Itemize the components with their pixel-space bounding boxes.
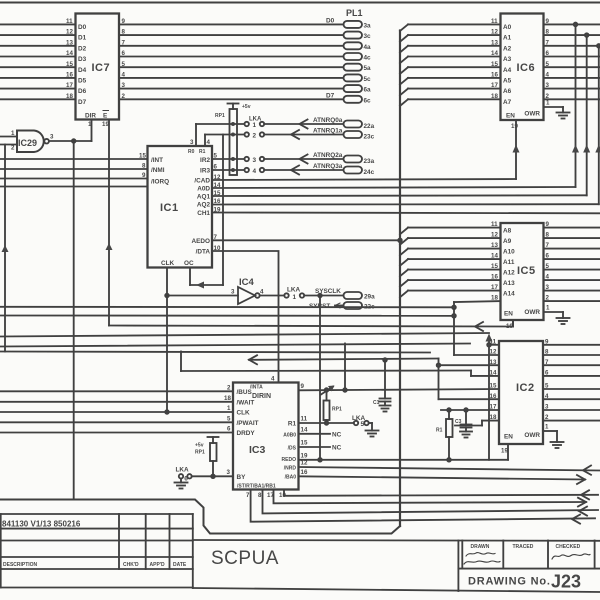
- svg-text:9: 9: [546, 18, 550, 25]
- svg-text:+5v: +5v: [195, 443, 204, 449]
- svg-text:C1: C1: [373, 400, 380, 406]
- svg-text:15: 15: [491, 61, 498, 68]
- svg-text:16: 16: [491, 274, 498, 281]
- buffer IC2: [499, 341, 543, 444]
- wire IC5 pin 1 to ground: [544, 305, 564, 319]
- svg-text:4: 4: [546, 72, 550, 79]
- svg-text:IC29: IC29: [18, 138, 37, 148]
- svg-text:OWR: OWR: [524, 309, 540, 316]
- svg-text:16: 16: [491, 72, 498, 79]
- ground IC2: [551, 442, 564, 448]
- svg-text:RP1: RP1: [215, 113, 225, 119]
- wire IC3 NC stubs: [299, 427, 342, 452]
- svg-text:19: 19: [511, 123, 518, 130]
- wire IC6 input address lines with bus entries: [400, 18, 501, 106]
- svg-text:9: 9: [142, 172, 146, 179]
- wire LKA link 2 ATNRQ1a: [205, 128, 375, 141]
- wire IC2 left pin numbers: [490, 338, 497, 421]
- capacitor C3: [455, 408, 472, 437]
- svg-text:NC: NC: [332, 432, 342, 439]
- svg-text:EN: EN: [504, 311, 513, 318]
- svg-text:3: 3: [546, 82, 550, 89]
- svg-text:CLK: CLK: [161, 260, 175, 267]
- wire IC7 DIR pin 1: [88, 120, 92, 142]
- wire IC29 output to IC7 DIR: [49, 139, 92, 143]
- wire IC3 bottom pins to right bus: [246, 490, 598, 524]
- svg-text:R1: R1: [436, 428, 443, 434]
- buffer IC6: [501, 14, 544, 121]
- svg-text:8: 8: [546, 29, 550, 36]
- svg-text:13: 13: [491, 39, 498, 46]
- wire bus line y346: [0, 344, 470, 347]
- resistor R1 pullup: [436, 408, 453, 461]
- svg-text:DRAWN: DRAWN: [471, 544, 490, 550]
- svg-text:A10: A10: [503, 249, 515, 256]
- svg-text:R1: R1: [199, 149, 206, 155]
- svg-text:IC7: IC7: [92, 62, 111, 74]
- svg-text:1: 1: [88, 121, 92, 128]
- svg-text:A13: A13: [503, 280, 515, 287]
- wire IC5 outputs: [544, 221, 600, 302]
- wire IC3 BY pin and LKA link 6: [176, 467, 234, 483]
- svg-text:19: 19: [301, 453, 308, 460]
- wire IC5 input address lines with bus entries: [400, 221, 501, 302]
- svg-text:6c: 6c: [364, 97, 372, 104]
- svg-text:24c: 24c: [364, 169, 375, 176]
- svg-text:A6: A6: [503, 88, 512, 95]
- resistor pack RP1: [215, 109, 237, 175]
- svg-text:8: 8: [122, 29, 126, 36]
- ground LKA5: [366, 431, 379, 437]
- svg-text:1: 1: [293, 294, 297, 301]
- svg-text:RP1: RP1: [195, 450, 205, 456]
- svg-text:4c: 4c: [364, 55, 372, 62]
- svg-text:A5: A5: [503, 78, 512, 85]
- ground IC6: [557, 113, 570, 119]
- svg-text:ATNRQ3a: ATNRQ3a: [313, 163, 343, 170]
- svg-text:R1: R1: [288, 421, 297, 428]
- svg-text:OC: OC: [184, 260, 194, 267]
- wire IC6 outputs: [544, 18, 600, 100]
- svg-text:LKA: LKA: [287, 287, 301, 294]
- svg-text:/DTA: /DTA: [196, 249, 211, 256]
- svg-text:IC3: IC3: [249, 444, 266, 456]
- svg-text:18: 18: [491, 93, 498, 100]
- svg-text:7: 7: [246, 492, 250, 499]
- power +5v for RP1: [228, 104, 251, 111]
- svg-text:TRACED: TRACED: [513, 544, 534, 550]
- wire IC2 pin 1 to ground: [543, 424, 557, 443]
- svg-text:4: 4: [207, 139, 211, 146]
- svg-text:A9: A9: [503, 238, 512, 245]
- svg-text:12: 12: [301, 460, 308, 467]
- svg-text:IC5: IC5: [517, 265, 536, 277]
- wire IC1 top pins IR0 IR1: [190, 124, 211, 146]
- svg-text:2: 2: [545, 414, 549, 421]
- top border: [0, 2, 600, 4]
- wire IC1 OC pin loop with arrow: [190, 135, 223, 289]
- svg-text:15: 15: [491, 263, 498, 270]
- svg-text:PL1: PL1: [346, 8, 363, 18]
- wire REDO line to IC2 EN: [299, 453, 509, 460]
- svg-text:5: 5: [545, 383, 549, 390]
- buffer IC7: [76, 14, 120, 120]
- svg-text:AQ1: AQ1: [197, 194, 211, 201]
- wire LKA link 5: [299, 415, 373, 431]
- wire LKA link SYSCLK: [260, 287, 344, 302]
- revision table: [0, 514, 193, 588]
- svg-text:8: 8: [258, 492, 262, 499]
- svg-text:2: 2: [122, 93, 126, 100]
- wire IC3 left inputs: [0, 385, 233, 433]
- svg-text:14: 14: [301, 427, 308, 434]
- svg-text:18: 18: [66, 93, 73, 100]
- resistor pack RP1 pullup at IC3: [324, 388, 342, 423]
- svg-text:1: 1: [546, 100, 550, 107]
- svg-text:2: 2: [11, 145, 15, 152]
- svg-text:17: 17: [491, 284, 498, 291]
- svg-text:6: 6: [546, 50, 550, 57]
- svg-text:29a: 29a: [364, 294, 375, 301]
- svg-text:/PWAIT: /PWAIT: [237, 420, 259, 427]
- svg-text:9: 9: [122, 18, 126, 25]
- wire main vertical bus x400: [399, 31, 401, 527]
- wire IC1 left inputs: [0, 153, 148, 187]
- svg-text:3: 3: [545, 404, 549, 411]
- wire lower border bus route: [0, 500, 400, 534]
- svg-text:5: 5: [546, 61, 550, 68]
- svg-text:LKA: LKA: [176, 467, 190, 474]
- svg-text:18: 18: [224, 395, 231, 402]
- svg-text:ATNRQ2a: ATNRQ2a: [313, 152, 343, 159]
- ground IC5: [557, 318, 570, 324]
- svg-text:D7: D7: [78, 99, 87, 106]
- svg-text:/WAIT: /WAIT: [237, 400, 255, 407]
- wire LKA link 1 ATNRQ0a: [196, 117, 375, 130]
- svg-text:AQ2: AQ2: [197, 202, 211, 209]
- wire bus line y307 to IC5 A15 and IC2 pin12: [0, 301, 501, 355]
- svg-text:A8: A8: [503, 228, 512, 235]
- wire IC1 CLK pin down: [165, 268, 169, 414]
- title block drawn traced checked: [458, 541, 600, 592]
- wire IC6 EN pin 19 down to /CAD: [511, 120, 520, 179]
- svg-text:2: 2: [546, 295, 550, 302]
- svg-text:DESCRIPTION: DESCRIPTION: [3, 562, 38, 568]
- svg-text:A14: A14: [503, 291, 515, 298]
- svg-text:22a: 22a: [364, 123, 375, 130]
- svg-text:IC6: IC6: [517, 62, 536, 74]
- wire AEDO line to edge: [212, 239, 400, 241]
- wire /DTA to IC3 pin 4: [212, 251, 279, 383]
- svg-text:6a: 6a: [364, 87, 372, 94]
- svg-text:12: 12: [491, 29, 498, 36]
- svg-text:7: 7: [546, 242, 550, 249]
- title drawing number J23: [468, 572, 581, 592]
- svg-text:IC2: IC2: [516, 382, 535, 394]
- svg-text:6: 6: [227, 426, 231, 433]
- svg-text:A1: A1: [503, 35, 512, 42]
- svg-text:8: 8: [142, 163, 146, 170]
- wire bus line y315: [0, 314, 456, 318]
- svg-text:9: 9: [546, 221, 550, 228]
- svg-text:SYRST: SYRST: [309, 303, 330, 310]
- svg-text:DIRIN: DIRIN: [252, 393, 271, 400]
- svg-text:IR2: IR2: [200, 157, 210, 164]
- svg-text:14: 14: [491, 253, 498, 260]
- svg-text:DRAWING No.: DRAWING No.: [468, 576, 551, 588]
- svg-text:BY: BY: [237, 474, 247, 481]
- svg-text:3: 3: [50, 134, 54, 141]
- svg-text:A0: A0: [503, 24, 512, 31]
- svg-text:D6: D6: [78, 88, 87, 95]
- svg-text:15: 15: [139, 153, 146, 160]
- ground LKA6: [175, 483, 188, 489]
- wire IC2 EN pin 19: [501, 444, 508, 460]
- svg-text:16: 16: [66, 72, 73, 79]
- wire IC3 DIRIN pin 9 line to IC2 pin15: [299, 344, 500, 395]
- wire IC1 right pin numbers: [214, 153, 221, 253]
- svg-text:/NMI: /NMI: [151, 167, 165, 174]
- svg-text:/DS: /DS: [288, 446, 297, 452]
- connector PL1: [344, 8, 372, 104]
- nand gate IC29: [11, 130, 54, 152]
- svg-text:/CAD: /CAD: [194, 178, 210, 185]
- svg-text:23c: 23c: [364, 134, 375, 141]
- wire IC2 outputs: [543, 338, 600, 421]
- svg-text:14: 14: [66, 50, 73, 57]
- svg-text:7: 7: [545, 359, 549, 366]
- wire IC29 inputs: [0, 137, 17, 145]
- svg-text:5a: 5a: [364, 65, 372, 72]
- wire LKA link 4 ATNRQ3a: [212, 163, 375, 176]
- capacitor C1 on line y359: [373, 358, 391, 411]
- svg-text:17: 17: [491, 82, 498, 89]
- svg-text:OWR: OWR: [524, 111, 540, 118]
- svg-text:2: 2: [227, 385, 231, 392]
- svg-text:D2: D2: [78, 45, 87, 52]
- svg-text:ATNRQ1a: ATNRQ1a: [313, 128, 343, 135]
- wire IC4 input from CLK net: [167, 295, 238, 297]
- resistor RP1 at BY with +5v: [195, 437, 219, 476]
- svg-text:CLK: CLK: [237, 410, 251, 417]
- svg-text:A3: A3: [503, 56, 512, 63]
- svg-text:D5: D5: [78, 78, 87, 85]
- wire vertical DIR net down to lower border: [73, 141, 75, 500]
- wire IC6 pin7 feedback vertical: [595, 44, 600, 204]
- svg-text:19: 19: [501, 448, 508, 455]
- svg-text:841130 V1/13 850216: 841130 V1/13 850216: [2, 520, 81, 529]
- svg-text:3c: 3c: [364, 33, 372, 40]
- svg-text:E: E: [103, 113, 108, 120]
- wire /CAD line to IC6 EN: [212, 179, 516, 180]
- wire IC6 pin 1 to ground: [544, 100, 564, 113]
- svg-text:NC: NC: [332, 445, 342, 452]
- svg-text:RP1: RP1: [332, 407, 342, 413]
- svg-text:3a: 3a: [364, 22, 372, 29]
- svg-text:DATE: DATE: [173, 562, 187, 568]
- svg-text:19: 19: [102, 121, 109, 128]
- svg-text:22c: 22c: [364, 304, 375, 311]
- svg-text:3: 3: [231, 289, 235, 296]
- svg-text:4: 4: [253, 168, 257, 175]
- svg-text:D0: D0: [78, 24, 87, 31]
- svg-text:A4: A4: [503, 67, 512, 74]
- cpu IC1: [148, 146, 213, 268]
- pad SYSRST 22c: [309, 302, 375, 311]
- svg-text:C3: C3: [455, 419, 462, 425]
- svg-text:J23: J23: [551, 572, 581, 592]
- wire bus line y325 from IC7 /E to IC5 EN: [109, 320, 513, 331]
- svg-text:R0: R0: [188, 149, 195, 155]
- svg-text:11: 11: [66, 18, 73, 25]
- wire IC7 D0-D7 input bus: [0, 18, 87, 106]
- svg-text:8: 8: [545, 349, 549, 356]
- svg-text:/NRD: /NRD: [284, 466, 297, 472]
- wire SYSCLK vertical x320: [318, 294, 322, 462]
- svg-text:5c: 5c: [364, 76, 372, 83]
- svg-text:3: 3: [190, 139, 194, 146]
- svg-text:/BA0: /BA0: [285, 475, 297, 481]
- svg-text:4: 4: [271, 376, 275, 383]
- svg-text:1: 1: [546, 305, 550, 312]
- svg-text:12: 12: [491, 232, 498, 239]
- svg-text:+5v: +5v: [242, 104, 251, 110]
- svg-text:CH1: CH1: [197, 210, 210, 217]
- controller IC3: [233, 383, 299, 490]
- svg-text:D7: D7: [326, 93, 335, 100]
- svg-text:3: 3: [227, 469, 231, 476]
- wire IC3 pin12 /NRD line right with arrow: [299, 460, 600, 475]
- svg-text:6: 6: [122, 50, 126, 57]
- svg-text:IR3: IR3: [200, 168, 210, 175]
- svg-text:IC1: IC1: [160, 202, 179, 214]
- wire AQ1 line: [212, 194, 587, 197]
- svg-text:DIR: DIR: [85, 113, 96, 120]
- svg-text:11: 11: [491, 18, 498, 25]
- wire IC2 pin18 feed jog: [455, 421, 499, 426]
- svg-text:EN: EN: [506, 113, 515, 120]
- svg-text:9: 9: [301, 383, 305, 390]
- wire IC6 pin8 feedback vertical: [583, 33, 590, 195]
- wire bus line y336 to arrow at IC2 pin11: [0, 333, 489, 337]
- buffer IC5: [501, 223, 544, 320]
- wire vertical from IC29 input down to bus: [2, 145, 9, 352]
- svg-text:/INT: /INT: [151, 157, 163, 164]
- svg-text:D0: D0: [326, 18, 335, 25]
- svg-text:SCPUA: SCPUA: [211, 548, 279, 569]
- wire IC7 /E pin 19 down to bus line: [102, 120, 113, 326]
- svg-text:4: 4: [546, 274, 550, 281]
- wire A0D line: [212, 187, 576, 188]
- svg-text:11: 11: [491, 221, 498, 228]
- svg-text:6: 6: [546, 253, 550, 260]
- svg-text:APP'D: APP'D: [150, 562, 165, 568]
- svg-text:14: 14: [491, 50, 498, 57]
- svg-text:2: 2: [253, 133, 257, 140]
- svg-text:17: 17: [66, 82, 73, 89]
- svg-text:A11: A11: [503, 259, 515, 266]
- wire branch y371 to IC2 pin14: [181, 352, 499, 376]
- svg-text:3: 3: [122, 82, 126, 89]
- svg-text:4: 4: [122, 72, 126, 79]
- wire line y359 with left arrow to IC2 pins13 16: [249, 355, 499, 399]
- svg-text:CHECKED: CHECKED: [556, 544, 581, 550]
- svg-text:9: 9: [545, 338, 549, 345]
- svg-text:3: 3: [546, 284, 550, 291]
- svg-text:1: 1: [545, 424, 549, 431]
- svg-text:6: 6: [545, 370, 549, 377]
- svg-text:/IORQ: /IORQ: [151, 179, 169, 186]
- svg-text:5: 5: [546, 263, 550, 270]
- svg-text:A0D: A0D: [197, 186, 210, 193]
- svg-text:OWR: OWR: [524, 432, 540, 439]
- svg-text:/INTA: /INTA: [250, 385, 263, 391]
- svg-text:15: 15: [66, 61, 73, 68]
- svg-text:13: 13: [66, 39, 73, 46]
- wire IC3 pin16 /BA0 line right with arrow: [299, 469, 586, 484]
- svg-text:5: 5: [122, 61, 126, 68]
- svg-text:11: 11: [301, 416, 308, 423]
- svg-text:D4: D4: [78, 67, 87, 74]
- wire IC5 EN pin 19: [506, 320, 513, 330]
- svg-text:A0B0: A0B0: [283, 433, 296, 439]
- svg-text:15: 15: [301, 440, 308, 447]
- svg-text:3: 3: [253, 157, 257, 164]
- svg-text:1: 1: [227, 405, 231, 412]
- wire IC2 pin17 stub: [441, 409, 499, 411]
- svg-text:SYSCLK: SYSCLK: [315, 288, 341, 295]
- wire IC6 pin9 feedback vertical: [572, 23, 579, 187]
- wire AQ2 line: [212, 203, 599, 205]
- svg-text:IC4: IC4: [239, 277, 255, 288]
- svg-text:4: 4: [260, 289, 264, 296]
- svg-text:7: 7: [546, 39, 550, 46]
- svg-text:4: 4: [545, 393, 549, 400]
- wire LKA link 3 ATNRQ2a: [212, 152, 375, 165]
- wire vertical IC2 pin11 feed with up arrow: [486, 334, 500, 460]
- svg-text:8: 8: [546, 232, 550, 239]
- svg-text:CHK'D: CHK'D: [123, 562, 139, 568]
- svg-text:REDO: REDO: [282, 457, 297, 463]
- pad SYSCLK 29a: [315, 288, 375, 301]
- junction dots on RP1: [231, 122, 235, 172]
- wire bus line y351: [0, 352, 430, 353]
- svg-text:4a: 4a: [364, 44, 372, 51]
- svg-text:EN: EN: [504, 434, 513, 441]
- svg-text:7: 7: [122, 39, 126, 46]
- title strip SCPUA: [193, 540, 600, 592]
- wire IC7 outputs to PL1: [119, 18, 344, 100]
- svg-text:16: 16: [301, 469, 308, 476]
- svg-text:1: 1: [253, 122, 257, 129]
- svg-text:5: 5: [227, 416, 231, 423]
- svg-text:A12: A12: [503, 270, 515, 277]
- svg-text:DRDY: DRDY: [237, 430, 256, 437]
- svg-text:13: 13: [491, 242, 498, 249]
- inverter IC4: [231, 277, 264, 304]
- wire CH1 line to edge: [212, 212, 600, 215]
- svg-text:D1: D1: [78, 35, 87, 42]
- svg-text:12: 12: [66, 29, 73, 36]
- svg-text:D3: D3: [78, 56, 87, 63]
- svg-text:ATNRQ0a: ATNRQ0a: [313, 117, 343, 124]
- svg-text:A7: A7: [503, 99, 512, 106]
- svg-text:23a: 23a: [364, 158, 375, 165]
- svg-text:AEDO: AEDO: [192, 238, 210, 245]
- svg-text:A2: A2: [503, 45, 512, 52]
- svg-text:/ST/RT/BA1/RB1: /ST/RT/BA1/RB1: [237, 484, 276, 490]
